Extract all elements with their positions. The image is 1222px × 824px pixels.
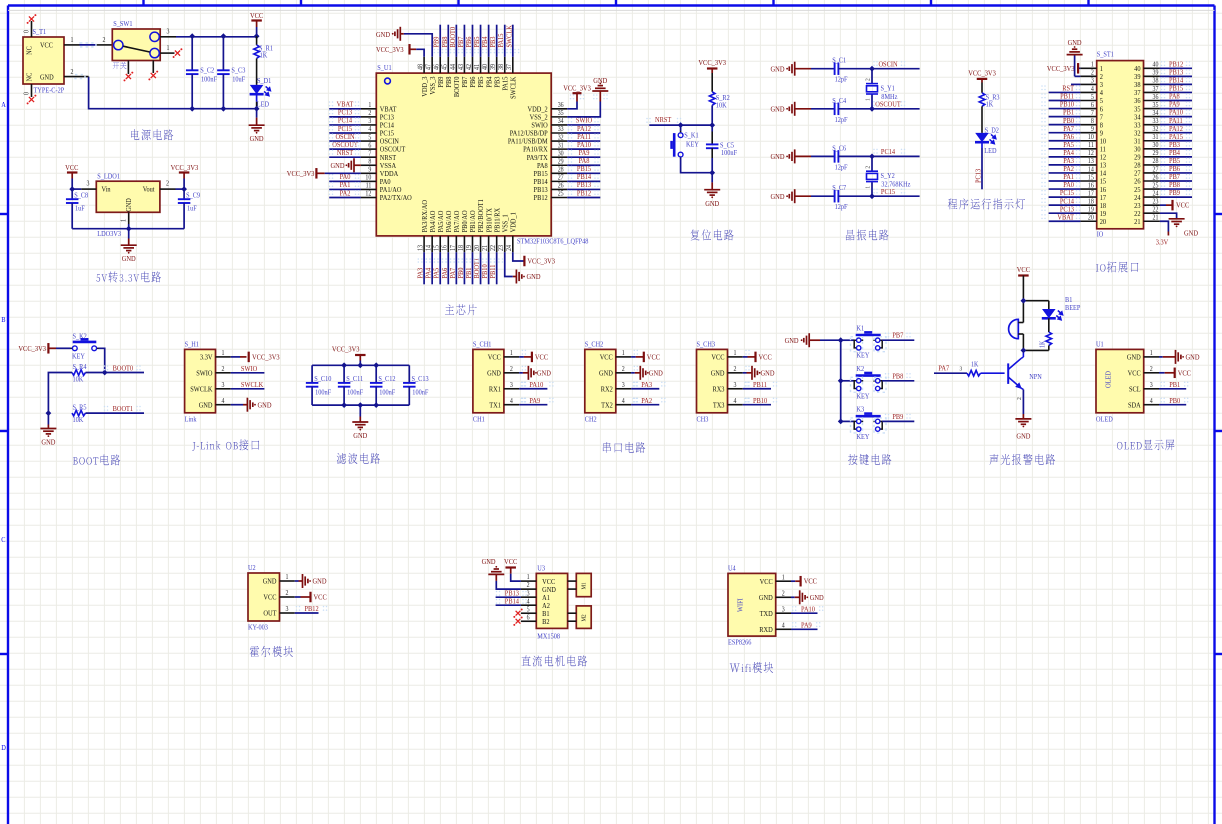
svg-text:GND: GND: [126, 198, 134, 212]
svg-text:48: 48: [417, 64, 425, 70]
H1 pin 1 3.3V: [216, 356, 231, 358]
U1 bottom pin 24 VDD_1: [512, 236, 514, 252]
svg-text:C: C: [1, 536, 6, 545]
svg-text:26: 26: [1153, 174, 1160, 182]
U1 top pin 42 PB6: [471, 57, 473, 73]
power port VCC at S_CH2: [631, 356, 636, 358]
svg-text:2: 2: [865, 166, 871, 169]
wire key bottom to rail: [681, 158, 713, 172]
svg-text:14: 14: [425, 244, 433, 251]
wire net PA10 at ST1 pin 34: [1160, 116, 1192, 118]
crystal S_Y1 8MHz: [871, 69, 873, 83]
wire R3 to LED D2: [981, 106, 983, 133]
svg-text:22: 22: [490, 245, 498, 251]
U3 pin 6 B2: [521, 620, 536, 622]
power port GND at S_CH3: [743, 372, 747, 374]
svg-text:8: 8: [368, 158, 371, 166]
junction crystal at PC15: [869, 193, 875, 199]
svg-text:100nF: 100nF: [412, 389, 428, 397]
svg-text:47: 47: [425, 63, 433, 70]
pin 1 of S_SW1: [160, 52, 174, 54]
ST1 left pin 15: [1080, 180, 1096, 182]
svg-text:TYPE-C-2P: TYPE-C-2P: [34, 87, 65, 95]
svg-text:1K: 1K: [986, 101, 994, 109]
U1 left pin 4 PC15: [361, 132, 376, 134]
U1 bottom pin 16 PA6/AO: [447, 236, 449, 252]
wire net PA10 at U1 pin 31: [567, 148, 600, 150]
svg-text:B1: B1: [1065, 297, 1073, 305]
svg-text:NRST: NRST: [655, 116, 672, 125]
svg-text:16: 16: [1088, 182, 1095, 190]
svg-text:2: 2: [166, 180, 169, 188]
ST1 right pin 36: [1144, 100, 1160, 102]
svg-text:22: 22: [1153, 206, 1159, 214]
junction crystal at PC14: [869, 154, 875, 160]
svg-text:PC14: PC14: [881, 148, 896, 157]
wire net PA4 at ST1 pin 12: [1049, 156, 1081, 158]
regulator S_LDO1 LDO3V3: [96, 181, 160, 212]
wire net PB9 at U1 pin 46: [439, 25, 441, 57]
wire filter to GND: [359, 405, 361, 416]
svg-text:3: 3: [960, 366, 963, 372]
S_CH1 pin 4 TX1: [504, 404, 519, 406]
svg-text:GND: GND: [353, 431, 367, 440]
S_CH2 pin 1 VCC: [616, 356, 631, 358]
ST1 left pin 6: [1080, 108, 1096, 110]
svg-text:31: 31: [1153, 134, 1159, 142]
svg-text:PB12: PB12: [534, 194, 549, 203]
svg-text:GND: GND: [40, 74, 54, 82]
svg-text:1: 1: [368, 102, 371, 110]
svg-text:RX2: RX2: [601, 385, 614, 394]
wire net PB10 at ST1 pin 6: [1049, 108, 1081, 110]
wire S_C6 to PC14: [838, 155, 919, 157]
svg-text:VCC: VCC: [1178, 369, 1192, 378]
svg-text:Vin: Vin: [102, 186, 112, 194]
svg-text:PB10: PB10: [753, 396, 768, 405]
wire net PB5 at ST1 pin 28: [1160, 164, 1192, 166]
wire net VBAT at ST1 pin 20: [1049, 220, 1081, 222]
svg-text:PA9: PA9: [529, 396, 540, 405]
svg-text:23: 23: [1153, 198, 1159, 206]
svg-text:37: 37: [1153, 85, 1160, 93]
key S_K2 KEY: [71, 339, 99, 350]
wire S_C4 to OSCOUT: [838, 108, 919, 110]
svg-text:VDD_1: VDD_1: [509, 212, 518, 233]
svg-text:SCL: SCL: [1129, 385, 1141, 394]
ST1 right pin 40: [1144, 67, 1160, 69]
wire Vout to C9: [176, 188, 185, 190]
U1 right pin 28 PB15: [551, 172, 567, 174]
ST1 right pin 39: [1144, 75, 1160, 77]
wire net SWIO at U1 pin 34: [567, 124, 600, 126]
S_CH3 pin 3 RX3: [728, 388, 743, 390]
junction bottom S_C11: [341, 402, 347, 408]
svg-text:GND: GND: [785, 337, 799, 346]
ST1 right pin 23: [1144, 204, 1160, 206]
U1 left pin 10 PA0: [361, 180, 376, 182]
connector S_H1 J-Link: [185, 349, 216, 412]
wire net PB11 at U1 pin 22: [496, 252, 498, 284]
junction alarm top node: [1021, 298, 1027, 304]
svg-text:VCC_3V3: VCC_3V3: [376, 46, 404, 55]
pin segment below LED: [256, 102, 258, 109]
capacitor S_C4 12pF: [835, 103, 839, 116]
caption 按键电路: [848, 454, 891, 465]
svg-text:VCC_3V3: VCC_3V3: [1047, 64, 1075, 73]
svg-text:GND: GND: [313, 577, 327, 586]
svg-text:100nF: 100nF: [315, 389, 331, 397]
U3 pin 2 GND: [521, 588, 536, 590]
svg-text:OLED: OLED: [1104, 371, 1113, 388]
MCU S_U1 STM32F103C8T6_LQFP48: [376, 73, 551, 236]
power port GND reset: [711, 173, 713, 183]
svg-text:25: 25: [558, 190, 564, 198]
U1 bottom pin 15 PA5/AO: [439, 236, 441, 252]
svg-text:S_R5: S_R5: [73, 404, 87, 412]
wire buzzer to collector node: [1022, 334, 1024, 350]
svg-text:1: 1: [1091, 61, 1094, 69]
svg-text:VCC: VCC: [647, 353, 661, 362]
ST1 left pin 1: [1080, 67, 1096, 69]
wire net OSCOUT at U1 pin 6: [329, 148, 361, 150]
junction at C9 top: [181, 186, 187, 192]
svg-text:PA10: PA10: [529, 380, 543, 389]
wire bus to K2: [841, 380, 855, 382]
svg-text:U2: U2: [248, 565, 256, 573]
ST1 left pin 11: [1080, 148, 1096, 150]
svg-text:VCC: VCC: [711, 353, 724, 362]
svg-text:1: 1: [527, 574, 530, 582]
svg-text:BOOT0: BOOT0: [113, 364, 134, 373]
svg-text:32: 32: [1153, 126, 1159, 134]
wire VCC_3V3 to key K2: [56, 347, 71, 349]
junction at C8 top: [69, 186, 75, 192]
ST1 left pin 10: [1080, 140, 1096, 142]
wire net BOOT1 at U1 pin 20: [480, 252, 482, 284]
svg-text:16: 16: [441, 244, 449, 251]
power port GND BOOT: [47, 425, 49, 429]
U1 top pin 46 PB9: [439, 57, 441, 73]
svg-text:MX1508: MX1508: [537, 633, 560, 641]
U4 pin 3 TXD: [776, 612, 791, 614]
junction C3 bottom: [221, 106, 227, 112]
power port GND alarm: [1022, 414, 1024, 419]
svg-text:1: 1: [71, 37, 74, 45]
capacitor S_C10 100nF: [311, 365, 313, 383]
ST1 left pin 16: [1080, 188, 1096, 190]
svg-text:27: 27: [558, 174, 565, 182]
power port GND at U1 VSS_2: [592, 86, 608, 91]
wire net PA9 at U4: [791, 628, 818, 630]
wire gnd rail to GND: [47, 413, 49, 424]
svg-text:VBAT: VBAT: [1057, 213, 1074, 222]
ST1 left pin 4: [1080, 91, 1096, 93]
U1 right pin 33 PA12/USB/DP: [551, 132, 567, 134]
S_CH1 pin 3 RX1: [504, 388, 519, 390]
svg-text:VCC: VCC: [600, 353, 613, 362]
wire K1 to net PB7: [882, 339, 914, 341]
power port VCC_3V3 at U1 VDD_1: [523, 256, 525, 267]
power port VCC at ST1 pin23: [1160, 204, 1166, 206]
svg-text:LED: LED: [257, 101, 269, 109]
ST1 right pin 34: [1144, 116, 1160, 118]
svg-text:SWCLK: SWCLK: [505, 25, 514, 47]
wire PA7 to base resistor: [934, 372, 967, 374]
U1 bottom pin 23 VSS_1: [504, 236, 506, 252]
U1 right pin 30 PA9/TX: [551, 156, 567, 158]
wire net PB1 at U1 pin 19: [471, 252, 473, 284]
svg-text:10: 10: [365, 174, 371, 182]
svg-text:PB14: PB14: [505, 597, 520, 606]
wire GND to S_C7: [811, 195, 835, 197]
capacitor S_C9 1uF: [183, 189, 185, 199]
U1 OLED pin 4 SDA: [1144, 404, 1159, 406]
svg-text:10: 10: [1088, 134, 1094, 142]
U1 left pin 7 NRST: [361, 156, 376, 158]
caption 滤波电路: [337, 453, 380, 464]
wire net PB1 at ST1 pin 7: [1049, 116, 1081, 118]
junction top S_C12: [373, 362, 379, 368]
svg-text:29: 29: [1153, 150, 1159, 158]
svg-text:S_C9: S_C9: [186, 192, 200, 200]
wire net PA6 at ST1 pin 10: [1049, 140, 1081, 142]
svg-text:24: 24: [506, 244, 514, 251]
svg-text:PA2/TX/AO: PA2/TX/AO: [380, 194, 412, 203]
wire net PA2 at ST1 pin 14: [1049, 172, 1081, 174]
svg-text:OLED: OLED: [1096, 416, 1113, 424]
svg-text:S_D1: S_D1: [257, 78, 272, 86]
svg-text:100nF: 100nF: [347, 389, 363, 397]
svg-text:12pF: 12pF: [835, 76, 848, 84]
wire net PA2 at S_CH2: [631, 404, 659, 406]
wire net PB11 at S_CH3: [743, 388, 771, 390]
U2 pin 3 OUT: [280, 612, 295, 614]
wire GND to pin 47: [404, 34, 432, 57]
svg-text:BEEP: BEEP: [1065, 305, 1081, 313]
svg-text:NRST: NRST: [337, 149, 354, 158]
svg-text:43: 43: [457, 64, 465, 70]
U3 pin 4 A2: [521, 604, 536, 606]
wire net PB1 at OLED: [1159, 388, 1186, 390]
wire net PB0 at ST1 pin 8: [1049, 124, 1081, 126]
wire R2 to NRST node: [711, 105, 713, 125]
U1 top pin 37 SWCLK: [512, 57, 514, 73]
U3 pin 1 VCC: [521, 580, 536, 582]
svg-text:3: 3: [222, 382, 225, 390]
ST1 right pin 25: [1144, 188, 1160, 190]
svg-text:VCC_3V3: VCC_3V3: [252, 353, 280, 362]
ST1 left pin 9: [1080, 132, 1096, 134]
wire net PB0 at OLED: [1159, 404, 1186, 406]
svg-text:A: A: [1, 101, 6, 110]
wire net PA7 at U1 pin 17: [455, 252, 457, 284]
svg-text:GND: GND: [705, 199, 719, 208]
wire SWIO net: [231, 372, 265, 374]
pin 2 Vout of S_LDO1: [160, 188, 176, 190]
U1 right pin 29 PA8: [551, 164, 567, 166]
wire net PB4 at ST1 pin 29: [1160, 156, 1192, 158]
ST1 right pin 29: [1144, 156, 1160, 158]
svg-text:44: 44: [449, 63, 457, 70]
S_CH3 pin 1 VCC: [728, 356, 743, 358]
svg-text:CH3: CH3: [697, 416, 709, 424]
power port VCC at S_CH3: [743, 356, 748, 358]
svg-text:24: 24: [1153, 190, 1160, 198]
svg-text:D: D: [1, 744, 6, 753]
svg-text:OSCIN: OSCIN: [878, 60, 897, 69]
no-connect X on S_SW1 pin1: [175, 51, 180, 56]
ST1 right pin 33: [1144, 124, 1160, 126]
U1 top pin 41 PB5: [480, 57, 482, 73]
no-connect X marks under S_SW1: [126, 74, 131, 79]
svg-text:36: 36: [558, 102, 565, 110]
ST1 left pin 14: [1080, 172, 1096, 174]
connector S_CH2 CH2: [585, 349, 616, 412]
svg-text:9: 9: [1091, 126, 1094, 134]
wire net PB14 at ST1 pin 38: [1160, 83, 1192, 85]
junction filter vcc: [357, 362, 363, 368]
svg-text:GND: GND: [711, 369, 725, 378]
svg-text:20: 20: [474, 245, 482, 251]
svg-text:CH1: CH1: [473, 416, 485, 424]
svg-text:100nF: 100nF: [201, 76, 217, 84]
svg-text:VCC: VCC: [804, 577, 818, 586]
U1 bottom pin 17 PA7/AO: [455, 236, 457, 252]
wire net PB12 at U2: [295, 612, 319, 614]
svg-text:PB12: PB12: [577, 189, 592, 198]
U1 right pin 32 PA11/USB/DM: [551, 140, 567, 142]
junction bottom S_C12: [373, 402, 379, 408]
ST1 left pin 3: [1080, 83, 1096, 85]
ST1 left pin 8: [1080, 124, 1096, 126]
U1 left pin 9 VDDA: [361, 172, 376, 174]
svg-text:BOOT1: BOOT1: [113, 405, 134, 414]
svg-text:12pF: 12pF: [835, 164, 848, 172]
H1 pin 4 GND: [216, 404, 231, 406]
U2 pin 2 VCC: [280, 596, 295, 598]
ST1 right pin 35: [1144, 108, 1160, 110]
svg-text:35: 35: [1153, 101, 1159, 109]
wire net PB15 at ST1 pin 37: [1160, 91, 1192, 93]
wire net PB13 at U3 A1: [496, 596, 521, 598]
svg-text:STM32F103C8T6_LQFP48: STM32F103C8T6_LQFP48: [517, 238, 589, 246]
svg-text:VCC: VCC: [488, 353, 501, 362]
svg-text:42: 42: [465, 64, 473, 70]
svg-text:S_CH2: S_CH2: [585, 341, 604, 349]
pin 0 top of S_T1: [31, 21, 33, 37]
svg-text:PB7: PB7: [892, 331, 903, 340]
svg-text:S_C13: S_C13: [412, 376, 430, 384]
power port VCC at U2: [295, 596, 301, 598]
U1 OLED pin 1 GND: [1144, 356, 1159, 358]
resistor 1K vertical alarm: [1046, 332, 1052, 346]
svg-text:1K: 1K: [971, 361, 979, 369]
S_CH1 pin 2 GND: [504, 372, 519, 374]
svg-text:GND: GND: [199, 401, 213, 410]
svg-text:B: B: [1, 316, 6, 325]
svg-text:VCC: VCC: [40, 42, 53, 50]
wire net PC13 at U1 pin 2: [329, 116, 361, 118]
crystal S_Y2 32.768KHz: [871, 156, 873, 170]
svg-text:46: 46: [433, 63, 441, 70]
ST1 left pin 2: [1080, 75, 1096, 77]
junction BOOT1 rail: [46, 410, 52, 416]
key bus vertical wire: [840, 340, 842, 421]
junction LDO gnd: [126, 226, 132, 232]
ST1 left pin 12: [1080, 156, 1096, 158]
caption J-Link OB接口: [192, 439, 259, 450]
wire net PB12 at ST1 pin 40: [1160, 67, 1192, 69]
svg-text:SDA: SDA: [1128, 401, 1141, 410]
key K2 KEY: [854, 373, 882, 391]
junction NRST/R2: [709, 122, 715, 128]
transistor Q1 NPN: [1007, 363, 1009, 384]
ST1 right pin 38: [1144, 83, 1160, 85]
U1 bottom pin 21 PB10/TX: [488, 236, 490, 252]
svg-text:S_C10: S_C10: [314, 376, 332, 384]
svg-text:NC: NC: [26, 46, 34, 55]
wire net PB5 at U1 pin 41: [480, 25, 482, 57]
svg-text:12: 12: [365, 190, 371, 198]
wire resistor to collector node: [1048, 346, 1050, 351]
svg-text:S_K2: S_K2: [73, 333, 88, 341]
S_CH3 pin 4 TX3: [728, 404, 743, 406]
svg-text:20: 20: [1088, 214, 1094, 222]
svg-text:1: 1: [1150, 350, 1153, 358]
svg-text:35: 35: [558, 110, 564, 118]
wire net PB6 at ST1 pin 27: [1160, 172, 1192, 174]
svg-text:VCC: VCC: [1128, 369, 1141, 378]
svg-text:41: 41: [474, 64, 482, 70]
junction C2 bottom: [189, 106, 195, 112]
U1 left pin 1 VBAT: [361, 108, 376, 110]
svg-text:S_Y2: S_Y2: [881, 173, 896, 181]
svg-text:11: 11: [366, 182, 372, 190]
wire base resistor to Q1: [981, 372, 1005, 374]
power port GND at S_CH1: [519, 372, 523, 374]
wire net PB4 at U1 pin 40: [488, 25, 490, 57]
wire net NRST at U1 pin 7: [329, 156, 361, 158]
U1 right pin 36 VDD_2: [551, 108, 567, 110]
capacitor S_C11 100nF: [343, 365, 345, 383]
wire net PB9 at ST1 pin 24: [1160, 196, 1192, 198]
wire GND to S_C4: [811, 108, 835, 110]
caption BOOT电路: [73, 454, 120, 465]
svg-text:31: 31: [558, 142, 564, 150]
wire bus to K1: [841, 339, 855, 341]
svg-text:45: 45: [441, 64, 449, 70]
ST1 left pin 5: [1080, 100, 1096, 102]
svg-text:S_H1: S_H1: [185, 341, 200, 349]
no-connect X top S_T1: [29, 16, 34, 21]
svg-text:GND: GND: [122, 255, 136, 264]
svg-text:SWCLK: SWCLK: [509, 77, 518, 99]
svg-text:3: 3: [1091, 77, 1094, 85]
U1 top pin 48 VDD_3: [423, 57, 425, 73]
wire net PB14 at U1 pin 27: [567, 180, 600, 182]
junction crystal at OSCOUT: [869, 106, 875, 112]
ST1 right pin 24: [1144, 196, 1160, 198]
svg-text:GND: GND: [761, 369, 775, 378]
U1 left pin 12 PA2/TX/AO: [361, 197, 376, 199]
svg-text:VCC_3V3: VCC_3V3: [527, 257, 555, 266]
wire net BOOT0 at U1 pin 44: [455, 25, 457, 57]
svg-text:S_CH3: S_CH3: [697, 341, 716, 349]
S_CH3 pin 2 GND: [728, 372, 743, 374]
capacitor S_C7 12pF: [835, 190, 839, 203]
svg-text:VCC: VCC: [759, 353, 773, 362]
